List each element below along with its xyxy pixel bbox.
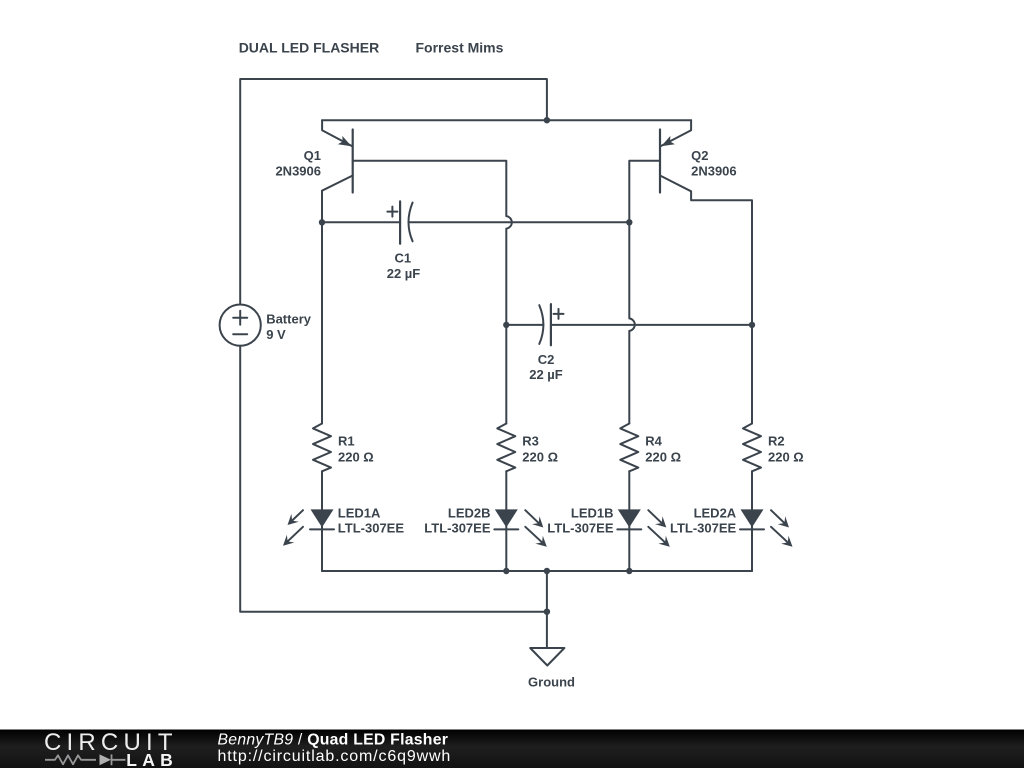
svg-text:22 µF: 22 µF bbox=[529, 367, 563, 382]
svg-text:9 V: 9 V bbox=[266, 327, 286, 342]
svg-text:LED1A: LED1A bbox=[338, 506, 381, 521]
svg-text:2N3906: 2N3906 bbox=[691, 164, 737, 179]
svg-text:Q2: Q2 bbox=[691, 148, 708, 163]
svg-text:220 Ω: 220 Ω bbox=[768, 449, 804, 464]
svg-text:LTL-307EE: LTL-307EE bbox=[547, 521, 614, 536]
svg-text:Q1: Q1 bbox=[304, 148, 321, 163]
svg-text:LTL-307EE: LTL-307EE bbox=[424, 521, 491, 536]
svg-text:220 Ω: 220 Ω bbox=[522, 449, 558, 464]
svg-text:R1: R1 bbox=[338, 434, 355, 449]
svg-text:BennyTB9 / Quad LED Flasher: BennyTB9 / Quad LED Flasher bbox=[218, 731, 449, 748]
svg-text:220 Ω: 220 Ω bbox=[645, 449, 681, 464]
svg-text:LED2B: LED2B bbox=[448, 506, 491, 521]
svg-text:LTL-307EE: LTL-307EE bbox=[338, 521, 405, 536]
svg-text:22 µF: 22 µF bbox=[387, 266, 421, 281]
svg-text:DUAL LED FLASHER: DUAL LED FLASHER bbox=[239, 40, 380, 56]
svg-text:C2: C2 bbox=[538, 352, 555, 367]
svg-text:http://circuitlab.com/c6q9wwh: http://circuitlab.com/c6q9wwh bbox=[218, 748, 452, 765]
svg-text:LED1B: LED1B bbox=[571, 506, 614, 521]
svg-text:Forrest Mims: Forrest Mims bbox=[416, 40, 504, 56]
svg-text:LED2A: LED2A bbox=[694, 506, 737, 521]
svg-text:R2: R2 bbox=[768, 434, 785, 449]
svg-text:C1: C1 bbox=[394, 251, 411, 266]
svg-text:Battery: Battery bbox=[266, 312, 312, 327]
svg-text:R3: R3 bbox=[522, 434, 539, 449]
svg-text:220 Ω: 220 Ω bbox=[338, 449, 374, 464]
svg-text:LTL-307EE: LTL-307EE bbox=[670, 521, 737, 536]
svg-text:2N3906: 2N3906 bbox=[275, 164, 321, 179]
svg-text:LAB: LAB bbox=[126, 750, 178, 768]
svg-text:Ground: Ground bbox=[528, 674, 575, 689]
svg-text:R4: R4 bbox=[645, 434, 662, 449]
